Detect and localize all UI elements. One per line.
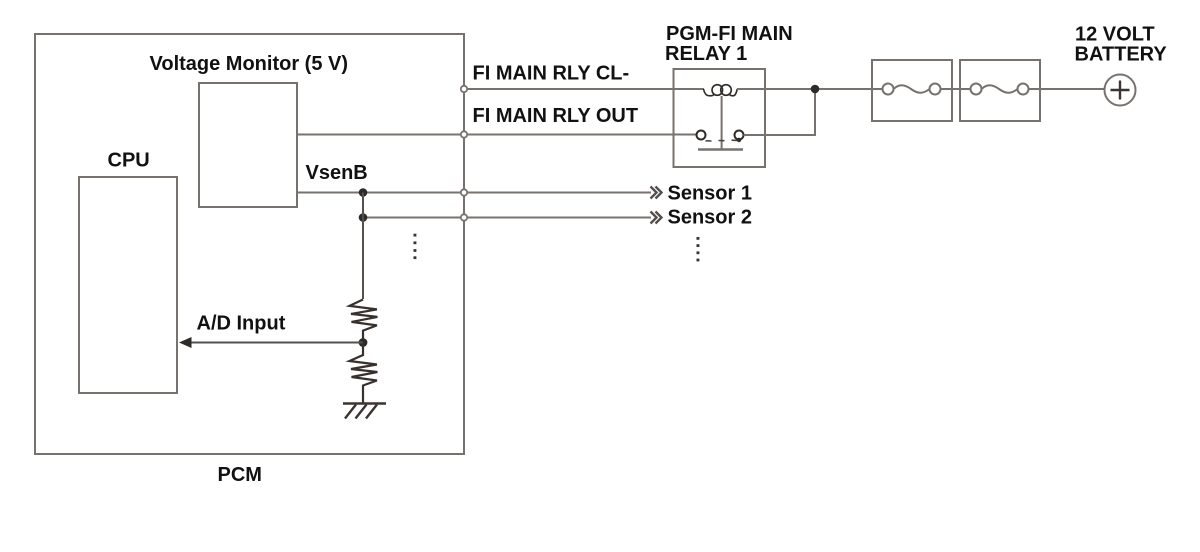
- relay armature vertical: [721, 96, 723, 149]
- relay contact dashes: [706, 139, 738, 142]
- resistor R1 upper: [350, 300, 378, 343]
- fuse box 1: [872, 60, 952, 121]
- wire coil to junction: [737, 88, 872, 90]
- pin circle CL- on PCM edge: [461, 86, 467, 92]
- node junction dot at relay output: [811, 85, 820, 94]
- node A/D junction dot: [359, 338, 368, 347]
- svg-text:Voltage Monitor (5 V): Voltage Monitor (5 V): [150, 53, 349, 75]
- fuse 1 symbol: [872, 84, 960, 95]
- svg-text:Sensor 2: Sensor 2: [668, 207, 752, 229]
- svg-text:Sensor 1: Sensor 1: [668, 183, 752, 205]
- svg-text:PCM: PCM: [218, 464, 262, 486]
- wire VsenB / Sensor 1: [297, 192, 651, 194]
- svg-text:A/D Input: A/D Input: [197, 313, 286, 335]
- node Sensor 2 junction dot: [359, 213, 368, 222]
- wire FI MAIN RLY OUT: [297, 134, 697, 136]
- svg-text:CPU: CPU: [108, 150, 150, 172]
- node VsenB junction dot: [359, 188, 368, 197]
- ground: [343, 404, 386, 419]
- svg-text:PGM-FI MAIN: PGM-FI MAIN: [666, 23, 793, 45]
- svg-text:BATTERY: BATTERY: [1075, 44, 1168, 66]
- relay contact circle right: [735, 131, 744, 140]
- relay armature bar: [698, 148, 743, 150]
- svg-text:VsenB: VsenB: [306, 162, 368, 184]
- wire vertical VsenB to divider: [362, 193, 364, 300]
- wire relay output to junction: [744, 89, 816, 135]
- pin circle OUT on PCM edge: [461, 131, 467, 137]
- svg-text:RELAY 1: RELAY 1: [665, 43, 747, 65]
- wire A/D input: [190, 342, 363, 344]
- svg-text:12 VOLT: 12 VOLT: [1075, 24, 1155, 46]
- fuse box 2: [960, 60, 1040, 121]
- svg-text:FI MAIN RLY CL-: FI MAIN RLY CL-: [473, 63, 630, 85]
- fuse 2 symbol: [960, 84, 1104, 95]
- ellipsis dots right: [697, 237, 700, 261]
- Voltage Monitor box: [199, 83, 297, 207]
- resistor R2 lower: [350, 343, 378, 404]
- battery plus sign: [1111, 81, 1130, 100]
- relay contact point under right circle: [737, 138, 741, 142]
- chevron arrow Sensor 2: [651, 212, 662, 224]
- CPU box: [79, 177, 177, 393]
- PCM box: [35, 34, 464, 454]
- relay coil: [704, 85, 738, 96]
- battery terminal circle: [1105, 75, 1136, 106]
- pin circle Sensor 2 on PCM edge: [461, 214, 467, 220]
- ellipsis dots left: [414, 234, 417, 259]
- arrowhead A/D input: [179, 337, 192, 348]
- svg-text:FI MAIN RLY OUT: FI MAIN RLY OUT: [473, 105, 639, 127]
- chevron arrow Sensor 1: [651, 187, 662, 199]
- relay box PGM-FI MAIN RELAY 1: [674, 69, 766, 167]
- wire FI MAIN RLY CL-: [467, 88, 704, 90]
- relay contact circle left: [697, 131, 706, 140]
- pin circle Sensor 1 on PCM edge: [461, 189, 467, 195]
- wire Sensor 2: [363, 217, 651, 219]
